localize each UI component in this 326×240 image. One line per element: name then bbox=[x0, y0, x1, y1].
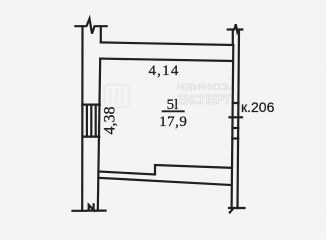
bottom-left inner foot tick bbox=[88, 210, 106, 212]
bottom-left outer foot tick bbox=[73, 210, 87, 212]
right wall right vertical bbox=[238, 30, 240, 208]
wall left outer vertical bbox=[81, 26, 84, 211]
right wall rung 3 bbox=[232, 137, 238, 139]
fraction bar bbox=[162, 110, 185, 112]
window hatch line 3 bbox=[95, 105, 97, 137]
cut cap top-right with break zigzag bbox=[228, 24, 243, 32]
bottom inner wall line with step bbox=[99, 165, 232, 175]
right wall rung 1 bbox=[233, 102, 239, 104]
right wall rung 2 bbox=[233, 127, 239, 129]
window sill top rung bbox=[82, 103, 99, 105]
top wall inner line bbox=[100, 59, 233, 61]
bottom-left break N mark bbox=[89, 204, 94, 210]
bottom-right break diagonal bbox=[230, 208, 234, 212]
window hatch line 1 bbox=[86, 105, 88, 137]
watermark logo box bbox=[105, 85, 129, 108]
paper noise bbox=[0, 0, 1, 1]
window sill bottom rung bbox=[82, 136, 99, 138]
top wall outer line bbox=[101, 30, 233, 45]
wall left inner vertical bbox=[98, 59, 100, 211]
right wall crossing tick bbox=[230, 116, 243, 118]
right wall left vertical bbox=[232, 45, 234, 208]
window hatch line 2 bbox=[90, 105, 92, 137]
bottom lower wall line bbox=[98, 178, 231, 185]
cut cap top-left with break zigzag bbox=[75, 19, 106, 34]
bottom-right break tick bbox=[229, 207, 245, 209]
step from cap down to top wall outer line bbox=[100, 26, 102, 42]
